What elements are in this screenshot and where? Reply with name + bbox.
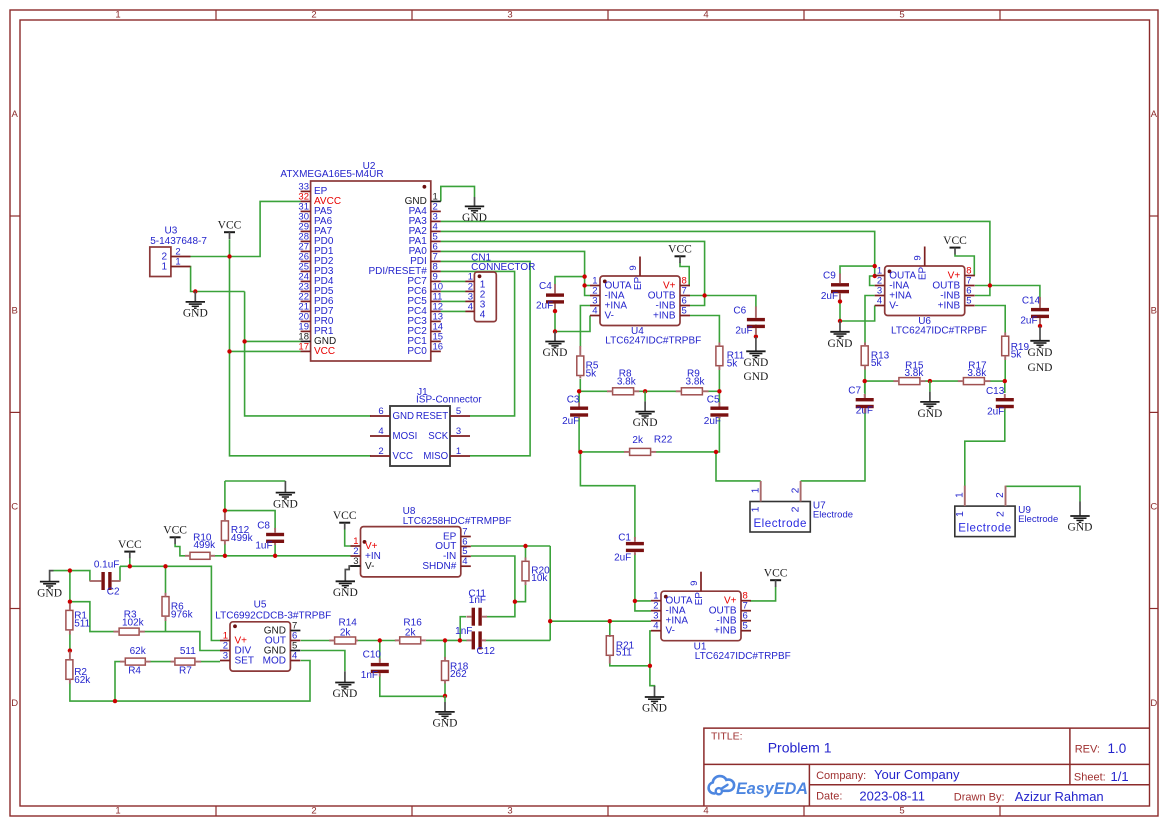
U2 pin 6 PA0 xyxy=(409,241,441,257)
U8 pin 5 -IN xyxy=(443,546,471,562)
U2 pin 9 PC7 xyxy=(407,271,440,287)
capacitor C5 leads xyxy=(718,403,720,419)
resistor R3 102k xyxy=(119,610,145,636)
svg-text:5: 5 xyxy=(682,305,687,316)
svg-text:C10: C10 xyxy=(363,650,382,661)
wire R13 to rail xyxy=(864,369,866,381)
wire rail R9 to C5 xyxy=(708,390,719,392)
wire C10 top xyxy=(379,641,381,661)
svg-text:C7: C7 xyxy=(848,386,861,397)
wire electrode U9 pin2 to ground xyxy=(1006,486,1081,501)
svg-text:1: 1 xyxy=(955,492,966,498)
svg-text:2: 2 xyxy=(311,806,316,817)
capacitor C10 leads xyxy=(379,659,381,677)
svg-text:LTC6247IDC#TRPBF: LTC6247IDC#TRPBF xyxy=(605,336,701,347)
wire GND net down to U2 pin18 / J1 pin6 xyxy=(245,292,371,416)
svg-text:D: D xyxy=(1150,698,1157,709)
U8 pin 6 OUT xyxy=(435,536,471,552)
wire R4 branch xyxy=(115,662,120,702)
wire R10 to +IN rail xyxy=(215,555,351,557)
wire R19 to rail xyxy=(1004,360,1006,382)
wire U8 -IN down to C11 xyxy=(471,556,515,617)
wire C10 bottom to GND rail xyxy=(380,675,445,697)
svg-text:1/1: 1/1 xyxy=(1111,769,1129,784)
EasyEDA logo xyxy=(709,776,808,798)
svg-text:MISO: MISO xyxy=(423,451,448,462)
capacitor C7 leads xyxy=(864,394,866,413)
resistor R8 3.8k xyxy=(613,368,637,395)
junction C4/V- gnd xyxy=(553,329,557,333)
wire C7 top to rail xyxy=(864,381,866,398)
U4 pin 8 V+ xyxy=(663,275,690,291)
svg-text:3.8k: 3.8k xyxy=(904,368,924,379)
svg-text:GND: GND xyxy=(743,371,768,383)
svg-text:16: 16 xyxy=(433,341,444,352)
svg-text:1: 1 xyxy=(115,806,120,817)
wire C5 top xyxy=(718,391,720,403)
svg-text:10k: 10k xyxy=(531,573,548,584)
wire U4 +INA to R5 xyxy=(580,306,590,347)
svg-text:EP: EP xyxy=(694,592,705,606)
svg-text:VCC: VCC xyxy=(764,568,788,580)
junction U6 OUTA/pin1 xyxy=(873,274,877,278)
svg-text:GND: GND xyxy=(642,703,667,715)
svg-text:GND: GND xyxy=(462,212,487,224)
junction U2 pin18 xyxy=(242,339,246,343)
op-amp U1 LTC6247IDC#TRPBF body xyxy=(661,591,791,662)
U2 pin 18 GND xyxy=(298,331,336,347)
svg-text:3.8k: 3.8k xyxy=(686,376,706,387)
junction R1/R2 xyxy=(68,648,72,652)
U2 pin 27 PD1 xyxy=(298,241,333,257)
svg-text:GND: GND xyxy=(1028,347,1053,359)
resistor R13 5k xyxy=(861,346,889,369)
U2 pin 26 PD2 xyxy=(298,251,333,267)
svg-text:499k: 499k xyxy=(231,533,254,544)
capacitor C11 leads xyxy=(467,616,488,618)
svg-text:1uF: 1uF xyxy=(255,541,272,552)
resistor R1 511 xyxy=(66,610,91,630)
U2 pin 31 PA5 xyxy=(298,201,332,217)
U2 pin 4 PA2 xyxy=(409,221,441,237)
wire rail R15 to R17 xyxy=(925,380,958,382)
svg-text:4: 4 xyxy=(703,806,708,817)
svg-text:V-: V- xyxy=(889,300,898,311)
ground U8 V- xyxy=(333,581,358,599)
svg-text:VCC: VCC xyxy=(943,235,967,247)
ground U5 pin5 xyxy=(332,671,357,700)
U9 pin 1 xyxy=(954,486,966,517)
svg-text:3.8k: 3.8k xyxy=(617,376,637,387)
wire +IN mid rail xyxy=(550,620,651,622)
VCC flag at U8 xyxy=(333,510,357,529)
svg-text:Company:: Company: xyxy=(816,770,866,782)
svg-text:GND: GND xyxy=(1068,522,1093,534)
wire R20 top xyxy=(525,546,527,558)
wire U5 OUT to R14 xyxy=(301,640,331,642)
svg-text:5-1437648-7: 5-1437648-7 xyxy=(150,236,207,247)
svg-text:2k: 2k xyxy=(632,435,644,446)
svg-text:GND: GND xyxy=(333,587,358,599)
svg-text:VCC: VCC xyxy=(314,346,335,357)
J1 pin 4 MOSI xyxy=(370,426,417,442)
wire U2 PC6 to CN1 pin2 xyxy=(441,290,466,292)
capacitor C14 2uF xyxy=(1020,296,1049,327)
resistor R11 5k xyxy=(716,346,745,369)
svg-text:GND: GND xyxy=(743,357,768,369)
svg-text:1nF: 1nF xyxy=(455,626,472,637)
wire C1 node to U1 -INA xyxy=(635,601,651,611)
VCC flag at U1 xyxy=(764,568,788,587)
wire C2 right lead up xyxy=(119,566,121,581)
capacitor C4 leads xyxy=(554,284,556,309)
resistor R17 3.8k xyxy=(963,361,987,385)
svg-text:2023-08-11: 2023-08-11 xyxy=(859,788,925,803)
wire U3 pin1 to GND net xyxy=(191,267,245,292)
capacitor C2 leads xyxy=(90,580,121,582)
ground U9 pin2 xyxy=(1068,502,1093,534)
U1 pin 8 V+ xyxy=(724,591,751,607)
svg-text:RESET: RESET xyxy=(416,411,448,422)
ground C9/V- xyxy=(828,321,853,350)
svg-text:2uF: 2uF xyxy=(1020,316,1037,327)
wire GND node down to R1 xyxy=(69,571,71,603)
svg-text:5: 5 xyxy=(456,406,461,417)
capacitor C3 leads xyxy=(578,403,580,419)
electrode U9 body xyxy=(955,505,1058,536)
svg-text:2: 2 xyxy=(311,10,316,21)
wire PA1 to U4 OUTB node xyxy=(441,241,705,295)
junction rail C3 xyxy=(577,389,581,393)
U4 pin 2 -INA xyxy=(590,285,625,301)
U8 pin 4 SHDN# xyxy=(422,556,470,572)
U4 pin 6 -INB xyxy=(656,295,691,311)
ground C2 rail xyxy=(37,582,62,600)
junction R1 top xyxy=(68,600,72,604)
svg-text:4: 4 xyxy=(292,650,297,661)
U2 pin 15 PC1 xyxy=(407,331,443,347)
wire U4 node to C4 top xyxy=(555,277,585,285)
svg-text:Electrode: Electrode xyxy=(813,510,853,521)
wire U6 V- to GND node xyxy=(840,306,875,322)
svg-text:2: 2 xyxy=(790,506,802,512)
svg-text:3.8k: 3.8k xyxy=(967,368,987,379)
U2 pin 28 PD0 xyxy=(298,231,333,247)
svg-text:+INB: +INB xyxy=(714,626,737,637)
U1 pin 2 -INA xyxy=(651,601,686,617)
U4 pin 9 EP xyxy=(628,257,644,291)
wire R12 node to C8 top xyxy=(225,511,275,530)
junction rail C13 xyxy=(1003,379,1007,383)
junction R22 right xyxy=(714,450,718,454)
resistor R6 976k xyxy=(162,597,194,621)
wire U2 pin1 GND to ground xyxy=(441,186,475,201)
wire C14 bottom xyxy=(1039,315,1041,326)
svg-text:Azizur Rahman: Azizur Rahman xyxy=(1015,789,1104,804)
capacitor C6 leads xyxy=(755,307,757,336)
U1 pin 1 OUTA xyxy=(651,591,693,607)
svg-text:5k: 5k xyxy=(727,359,739,370)
svg-text:C3: C3 xyxy=(567,395,580,406)
U8 pin 1 V+ xyxy=(351,536,378,552)
wire PA0 to U4 OUTA node xyxy=(441,251,590,295)
svg-text:5: 5 xyxy=(899,10,904,21)
wire R22 row left xyxy=(580,451,624,453)
U2 pin 25 PD3 xyxy=(298,261,333,277)
resistor R22 2k xyxy=(630,434,673,455)
wire U2 PC5 to CN1 pin3 xyxy=(441,300,466,302)
junction U4 OUTB xyxy=(702,293,706,297)
svg-text:VCC: VCC xyxy=(218,220,242,232)
svg-text:2uF: 2uF xyxy=(821,291,838,302)
wire R7 to U5 SET xyxy=(201,661,220,663)
capacitor C4 2uF xyxy=(536,281,564,312)
resistor R12 499k xyxy=(221,521,253,544)
junction C12/corner xyxy=(548,619,552,623)
svg-text:2k: 2k xyxy=(405,627,417,638)
svg-text:2: 2 xyxy=(790,487,801,493)
svg-text:262: 262 xyxy=(450,669,467,680)
junction R4 bottom xyxy=(113,699,117,703)
ground C6 xyxy=(743,337,768,383)
svg-text:GND: GND xyxy=(1028,362,1053,374)
wire R5 to rail xyxy=(579,379,581,391)
wire rail R5 to R8 xyxy=(579,390,607,392)
U5 pin 3 SET xyxy=(220,650,254,666)
svg-text:102k: 102k xyxy=(122,617,145,628)
junction C4 lead xyxy=(553,309,557,313)
svg-text:1: 1 xyxy=(161,261,167,272)
ground near U3 xyxy=(183,292,208,320)
U2 pin 33 EP xyxy=(298,181,327,197)
ground C14 xyxy=(1028,327,1053,375)
svg-text:4: 4 xyxy=(877,295,882,306)
svg-text:GND: GND xyxy=(332,688,357,700)
U8 pin 3 V- xyxy=(351,556,375,572)
U2 pin 24 PD4 xyxy=(298,271,333,287)
junction U6 OUTB xyxy=(988,283,992,287)
U4 pin 7 OUTB xyxy=(648,285,690,301)
U2 pin 2 PA4 xyxy=(409,201,441,217)
svg-text:0.1uF: 0.1uF xyxy=(94,560,120,571)
wire R12 top to gnd-over xyxy=(224,481,226,514)
capacitor C7 2uF xyxy=(848,386,873,417)
U2 pin 32 AVCC xyxy=(298,191,341,207)
svg-text:2k: 2k xyxy=(340,627,352,638)
VCC flag at U6 xyxy=(943,235,967,254)
svg-text:3: 3 xyxy=(456,426,461,437)
wire GND rail to C2 left xyxy=(54,571,90,581)
U6 pin 6 -INB xyxy=(940,285,975,301)
wire R6 top to VCC rail xyxy=(165,566,167,593)
svg-text:976k: 976k xyxy=(171,609,194,620)
svg-text:4: 4 xyxy=(653,621,658,632)
svg-text:LTC6247IDC#TRPBF: LTC6247IDC#TRPBF xyxy=(695,651,791,662)
wire R1 to R2 xyxy=(69,634,71,654)
capacitor C13 2uF xyxy=(986,386,1014,418)
wire PDI/RESET# to J1 RESET xyxy=(441,271,515,416)
svg-text:9: 9 xyxy=(628,265,639,270)
U9 pin 2 xyxy=(995,486,1007,517)
U4 pin 3 +INA xyxy=(590,295,627,311)
U2 pin 20 PR0 xyxy=(298,311,333,327)
svg-text:VCC: VCC xyxy=(118,539,142,551)
wire R21 top xyxy=(609,621,611,638)
junction R12 top xyxy=(223,508,227,512)
U2 pin 5 PA1 xyxy=(409,231,441,247)
U7 pin 2 xyxy=(790,481,802,512)
junction R21 top xyxy=(608,619,612,623)
svg-text:CONNECTOR: CONNECTOR xyxy=(471,262,535,273)
svg-text:3: 3 xyxy=(353,556,358,567)
wire gnd-over horizontal xyxy=(225,480,286,482)
svg-text:Electrode: Electrode xyxy=(958,522,1011,535)
capacitor C9 leads xyxy=(839,274,841,300)
wire VCC to U4 V+ xyxy=(680,263,690,286)
resistor R2 62k xyxy=(66,660,91,686)
wire U6 +INA to R13 xyxy=(865,296,875,347)
J1 pin 3 SCK xyxy=(428,426,470,442)
U5 pin 7 GND xyxy=(264,620,301,636)
U2 pin 7 PDI xyxy=(410,251,441,267)
svg-text:3: 3 xyxy=(507,10,512,21)
wire VCC vertical to U2 pin17 and J1 VCC xyxy=(230,239,372,456)
ground U1 V- xyxy=(642,686,667,715)
junction rail R13 xyxy=(863,379,867,383)
svg-text:+INB: +INB xyxy=(938,300,961,311)
U2 pin 14 PC2 xyxy=(407,321,443,337)
svg-text:SCK: SCK xyxy=(428,431,448,442)
J1 pin 2 VCC xyxy=(370,446,413,462)
J1 pin 1 MISO xyxy=(423,446,470,462)
resistor R7 511 xyxy=(175,646,196,677)
capacitor C14 leads xyxy=(1039,297,1041,324)
resistor R16 2k xyxy=(400,617,423,644)
wire PA3 to U6 OUTB / -INB xyxy=(441,221,990,295)
junction R20 bottom xyxy=(513,600,517,604)
junction C10 top xyxy=(378,638,382,642)
svg-text:Your Company: Your Company xyxy=(874,767,960,782)
svg-text:Electrode: Electrode xyxy=(1018,514,1058,525)
svg-text:TITLE:: TITLE: xyxy=(711,730,743,742)
svg-text:GND: GND xyxy=(433,718,458,730)
U3 pin 1 xyxy=(161,256,190,272)
junction U1 V- xyxy=(648,664,652,668)
electrode U7 body xyxy=(750,501,853,533)
resistor R19 5k xyxy=(1002,336,1030,361)
wire U4 OUTB to -INB feedback xyxy=(690,296,705,306)
U6 pin 1 OUTA xyxy=(875,265,917,281)
svg-text:17: 17 xyxy=(298,341,309,352)
wire U1 V+ to VCC xyxy=(750,587,776,601)
U2 pin 3 PA3 xyxy=(409,211,441,227)
CN1 pin 4 xyxy=(465,301,485,320)
capacitor C5 2uF xyxy=(704,395,729,427)
wire VCC flag stub to rail xyxy=(129,558,131,566)
connector U3 5-1437648-7 body xyxy=(150,226,208,277)
resistor R21 511 xyxy=(606,636,634,659)
svg-text:4: 4 xyxy=(703,10,708,21)
wire VCC to U6 V+ xyxy=(955,254,975,276)
junction C8 bottom xyxy=(273,554,277,558)
junction rail gnd U6 xyxy=(928,379,932,383)
junction R6 top xyxy=(163,564,167,568)
U6 pin 5 +INB xyxy=(938,295,975,311)
U2 pin 10 PC6 xyxy=(407,281,443,297)
svg-text:1: 1 xyxy=(750,506,762,512)
U1 pin 6 -INB xyxy=(717,611,752,627)
svg-text:Drawn By:: Drawn By: xyxy=(954,791,1005,803)
svg-text:C: C xyxy=(1150,502,1157,513)
capacitor C8 1uF xyxy=(255,520,284,551)
junction rail gnd U4 xyxy=(643,389,647,393)
svg-text:2uF: 2uF xyxy=(614,552,631,563)
wire U4 V- to GND xyxy=(555,316,590,332)
connector CN1 CONNECTOR body xyxy=(471,253,535,322)
svg-text:3: 3 xyxy=(507,806,512,817)
U2 pin 17 VCC xyxy=(298,341,335,357)
wire C11 left to C12 row xyxy=(460,617,466,641)
svg-text:1nF: 1nF xyxy=(469,595,486,606)
wire rail R17 to C13 xyxy=(990,380,1005,382)
svg-text:Electrode: Electrode xyxy=(753,517,806,530)
svg-text:2uF: 2uF xyxy=(536,300,553,311)
U6 pin 3 +INA xyxy=(875,285,912,301)
U1 pin 7 OUTB xyxy=(709,601,751,617)
junction GND rail left xyxy=(68,568,72,572)
svg-text:499k: 499k xyxy=(193,540,216,551)
svg-text:C9: C9 xyxy=(823,271,836,282)
capacitor C1 2uF xyxy=(614,532,644,563)
svg-text:C4: C4 xyxy=(539,281,552,292)
U8 pin 2 +IN xyxy=(351,546,381,562)
wire C13 bottom to electrode U9 pin1 xyxy=(965,408,1005,487)
svg-text:EP: EP xyxy=(918,267,929,281)
capacitor C8 leads xyxy=(274,528,276,545)
wire rail R13 to R15 xyxy=(865,380,894,382)
svg-text:EasyEDA: EasyEDA xyxy=(736,780,808,798)
svg-text:A: A xyxy=(1151,109,1158,120)
op-amp U8 LTC6258HDC#TRMPBF body xyxy=(361,506,512,577)
U2 pin 1 GND xyxy=(405,191,441,207)
svg-text:1nF: 1nF xyxy=(361,670,378,681)
wire C3 bottom to R22 row xyxy=(578,418,580,452)
svg-text:V-: V- xyxy=(605,310,614,321)
wire R20 bottom to -IN node xyxy=(515,585,526,602)
svg-text:2uF: 2uF xyxy=(704,416,721,427)
capacitor C12 leads xyxy=(467,639,487,641)
junction C11 bottom xyxy=(458,638,462,642)
svg-text:Problem 1: Problem 1 xyxy=(768,740,832,756)
svg-text:ISP-Connector: ISP-Connector xyxy=(416,395,482,406)
junction C14 gnd xyxy=(1038,324,1042,328)
U6 pin 9 EP xyxy=(913,247,929,281)
junction GND/U3 xyxy=(193,289,197,293)
ground U4 rail xyxy=(633,391,658,429)
wire VCC to U8 V+ xyxy=(345,529,351,546)
svg-text:GND: GND xyxy=(828,338,853,350)
CN1 pin 3 xyxy=(465,291,485,310)
U5 pin 4 MOD xyxy=(263,650,301,666)
U2 pin 21 PD7 xyxy=(298,301,333,317)
svg-text:4: 4 xyxy=(592,305,597,316)
resistor R5 5k xyxy=(577,356,599,379)
svg-text:9: 9 xyxy=(913,255,924,260)
resistor R15 3.8k xyxy=(899,361,924,385)
svg-text:MOSI: MOSI xyxy=(393,431,418,442)
wire U1 V- branch xyxy=(650,631,651,666)
U2 pin 8 PDI/RESET# xyxy=(368,261,440,277)
